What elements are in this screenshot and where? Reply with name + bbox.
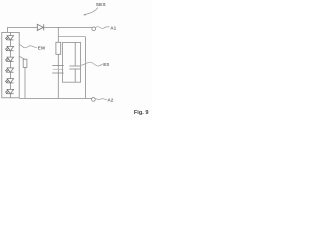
lead squiggle A1 xyxy=(96,27,110,29)
resistor R1 xyxy=(56,42,61,54)
lead squiggle ES xyxy=(81,62,103,66)
capacitor C1 (left branch, polarized) xyxy=(52,66,64,73)
resistor R2 xyxy=(23,59,27,67)
lead squiggle A2 xyxy=(95,99,107,100)
node branch vertical at x=58.3 xyxy=(57,27,59,98)
lead squiggle EW xyxy=(19,45,37,48)
svg-text:A1: A1 xyxy=(110,26,116,31)
wire diagonal lead to R2 xyxy=(19,56,25,59)
arrow SES xyxy=(85,8,98,15)
wire tee to outer vertical xyxy=(58,36,85,38)
svg-text:Fig. 9: Fig. 9 xyxy=(134,110,149,116)
svg-text:SES: SES xyxy=(96,2,107,8)
wire bottom horizontal xyxy=(19,97,91,99)
svg-text:EW: EW xyxy=(38,46,46,51)
LED 5 xyxy=(5,79,14,84)
box ES (energy storage) xyxy=(62,43,80,83)
wire outer vertical xyxy=(85,37,87,99)
LED 1 xyxy=(5,36,14,41)
LED 3 xyxy=(5,57,14,62)
LED string EW (6 LEDs) xyxy=(5,36,14,94)
LED 6 xyxy=(5,89,14,94)
wire LED chain lead xyxy=(9,32,11,98)
terminal A1 circle xyxy=(92,27,96,31)
diode D1 xyxy=(37,24,43,30)
wire R2 bottom lead xyxy=(24,67,26,98)
wire top-left corner drop xyxy=(7,27,9,32)
svg-text:ES: ES xyxy=(103,62,109,67)
terminal A2 circle xyxy=(92,98,96,102)
LED 4 xyxy=(5,68,14,73)
svg-text:A2: A2 xyxy=(107,97,113,102)
LED 2 xyxy=(5,46,14,51)
capacitor C2 (inside ES box) xyxy=(69,43,80,83)
box EW (LED module) xyxy=(2,32,19,97)
wire top horizontal xyxy=(8,26,92,28)
